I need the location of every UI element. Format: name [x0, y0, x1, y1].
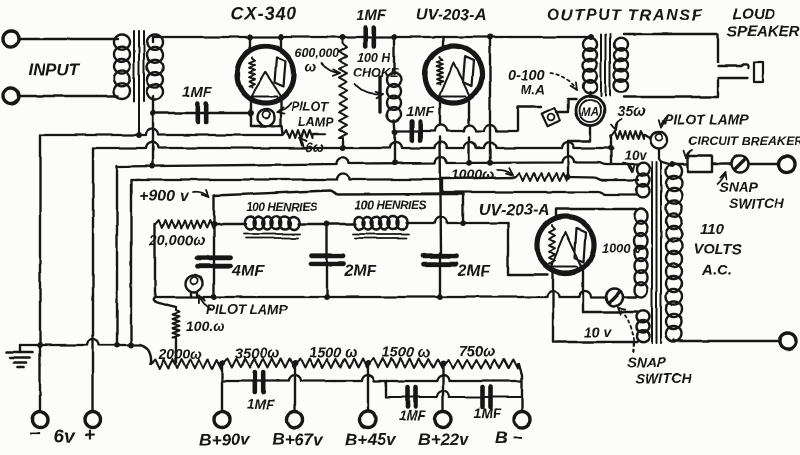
svg-text:PILOT LAMP: PILOT LAMP	[206, 302, 289, 317]
svg-text:M.A: M.A	[521, 82, 545, 97]
svg-text:SPEAKER: SPEAKER	[727, 23, 800, 40]
svg-text:B+22v: B+22v	[418, 430, 470, 449]
svg-text:B+90v: B+90v	[199, 430, 251, 449]
svg-text:CIRCUIT BREAKER: CIRCUIT BREAKER	[688, 134, 800, 148]
svg-text:6ω: 6ω	[305, 139, 325, 155]
svg-text:CX-340: CX-340	[231, 4, 297, 24]
svg-text:3500ω: 3500ω	[235, 346, 279, 362]
svg-text:SWITCH: SWITCH	[636, 370, 692, 386]
svg-text:LAMP: LAMP	[298, 115, 334, 129]
svg-text:INPUT: INPUT	[28, 60, 81, 79]
svg-text:ω: ω	[305, 58, 317, 74]
svg-text:1500 ω: 1500 ω	[309, 345, 357, 361]
svg-text:1MF: 1MF	[247, 397, 275, 412]
svg-text:100 HENRIES: 100 HENRIES	[246, 200, 318, 214]
svg-text:1000ω: 1000ω	[451, 166, 494, 182]
svg-text:B+45v: B+45v	[345, 430, 397, 449]
svg-text:1MF: 1MF	[406, 103, 434, 119]
svg-text:SNAP: SNAP	[719, 179, 759, 195]
svg-text:1MF: 1MF	[356, 7, 387, 24]
svg-text:20,000ω: 20,000ω	[148, 233, 205, 249]
svg-text:+: +	[84, 425, 95, 446]
svg-text:2MF: 2MF	[343, 263, 377, 280]
svg-text:LOUD: LOUD	[733, 6, 776, 23]
svg-text:35ω: 35ω	[617, 103, 647, 120]
svg-text:SNAP: SNAP	[627, 354, 667, 370]
svg-text:1MF: 1MF	[182, 84, 213, 101]
svg-text:100 HENRIES: 100 HENRIES	[355, 198, 427, 212]
svg-text:100 H: 100 H	[357, 51, 391, 65]
svg-text:UV-203-A: UV-203-A	[416, 7, 487, 24]
svg-text:600,000: 600,000	[295, 46, 339, 60]
svg-text:+900 v: +900 v	[139, 188, 189, 205]
svg-text:10v: 10v	[624, 148, 648, 163]
svg-text:100.ω: 100.ω	[186, 318, 225, 334]
svg-text:10 v: 10 v	[584, 324, 612, 340]
svg-text:1500 ω: 1500 ω	[382, 345, 430, 361]
svg-text:VOLTS: VOLTS	[693, 241, 742, 258]
svg-text:OUTPUT TRANSF: OUTPUT TRANSF	[547, 7, 703, 24]
svg-text:750ω: 750ω	[459, 344, 495, 360]
svg-text:110: 110	[700, 221, 725, 238]
svg-text:B −: B −	[495, 428, 522, 447]
svg-text:PILOT: PILOT	[291, 100, 329, 114]
svg-text:PILOT LAMP: PILOT LAMP	[664, 111, 749, 127]
svg-text:4MF: 4MF	[231, 263, 265, 280]
svg-text:1MF: 1MF	[474, 406, 502, 421]
svg-text:A.C.: A.C.	[701, 262, 732, 279]
svg-text:SWITCH: SWITCH	[729, 195, 785, 211]
svg-text:2000ω: 2000ω	[158, 346, 202, 362]
svg-text:UV-203-A: UV-203-A	[479, 202, 550, 219]
svg-text:6v: 6v	[53, 427, 76, 448]
svg-text:B+67v: B+67v	[272, 430, 324, 449]
svg-text:−: −	[29, 424, 40, 445]
svg-text:2MF: 2MF	[457, 263, 491, 280]
svg-text:1MF: 1MF	[399, 408, 427, 423]
svg-text:MA: MA	[581, 107, 599, 119]
